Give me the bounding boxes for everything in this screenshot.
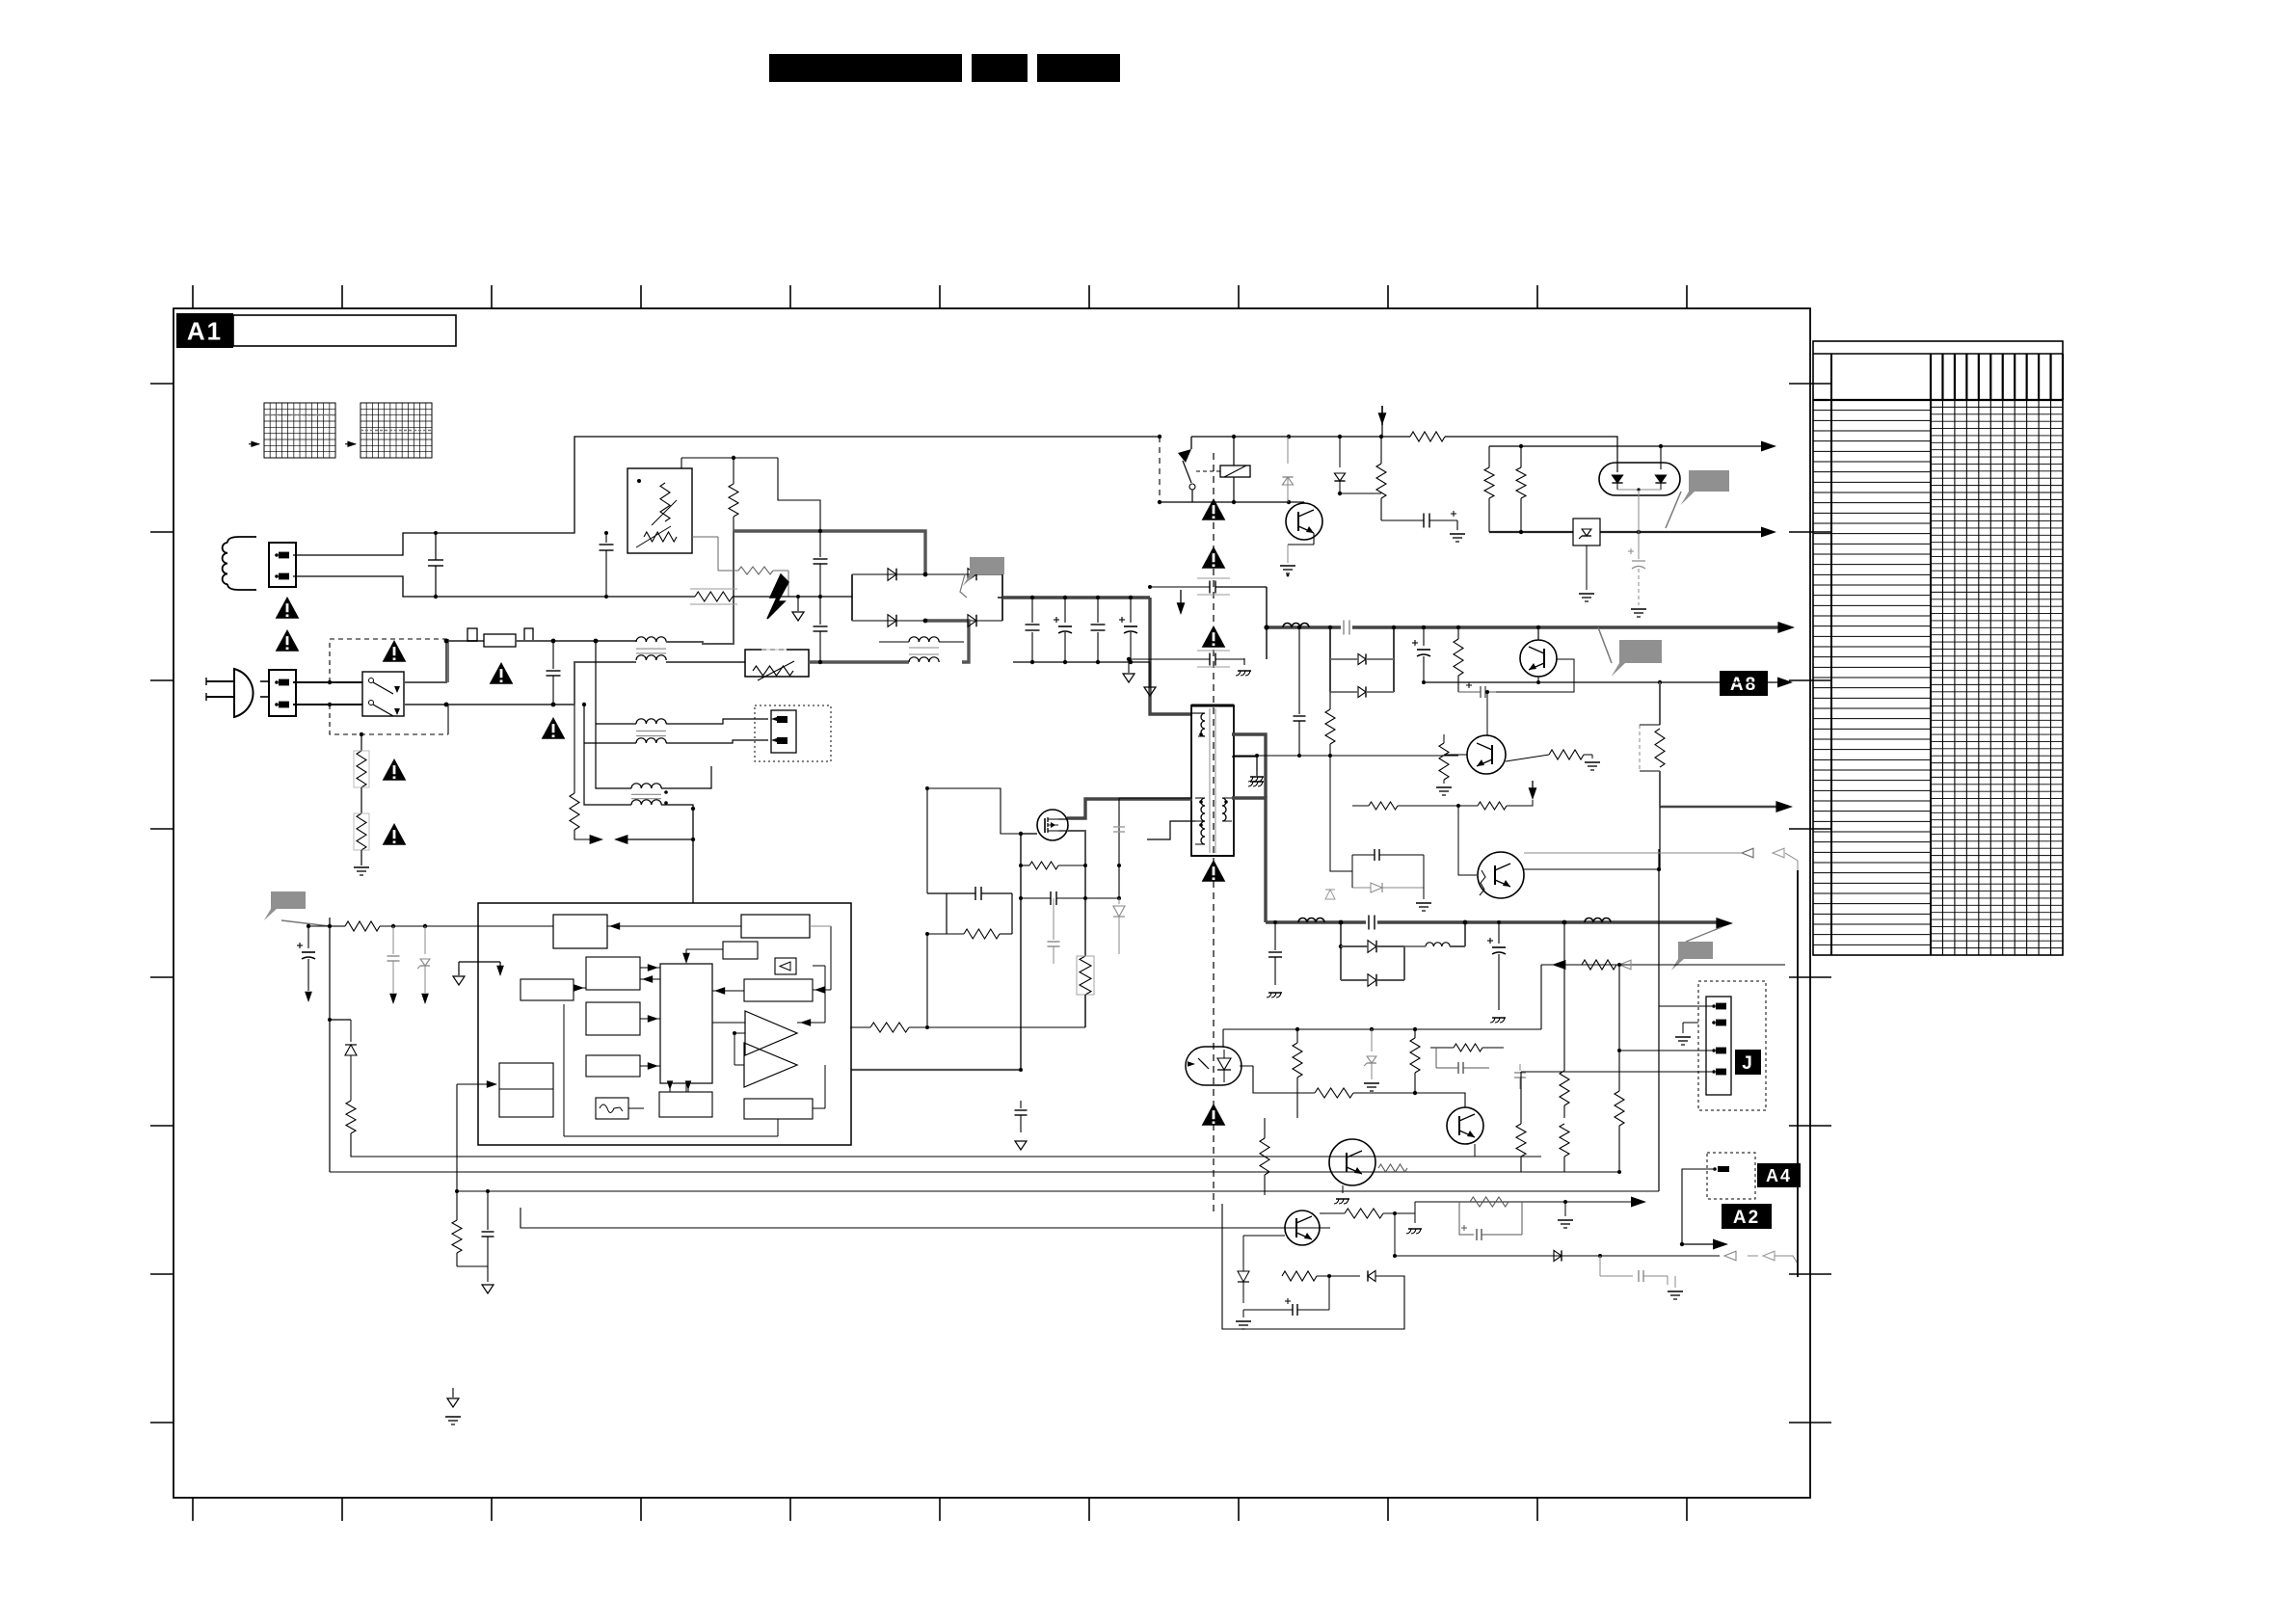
warning triangle [383,758,407,781]
transformer secondary [1222,798,1226,806]
wire top rail [1381,436,1410,438]
wire base loop [1496,659,1574,692]
wire tr base [1292,520,1298,522]
wire opto top [1222,1029,1224,1048]
resistor [1296,1029,1298,1043]
wire [1537,627,1539,640]
svg-text:J: J [1742,1053,1754,1074]
bus primary bottom to mosfet [1067,799,1192,818]
wire [360,787,362,813]
IC block small [723,942,758,959]
bus secondary out [1266,920,1722,923]
page border [174,308,1810,1498]
wire fb lines [561,1156,563,1157]
resistor [1454,1044,1482,1051]
transformer primary [1201,713,1205,721]
dashed relay line [1159,437,1161,502]
wire fb long1 [350,1156,352,1157]
inductor [1585,918,1593,923]
warning triangle [276,597,300,619]
bus secondary [1232,798,1266,922]
wire ptc link [681,457,778,459]
IC internal wiring [607,925,741,927]
diode [1339,437,1341,467]
snubber loop [927,892,947,894]
block feedback outer [521,979,574,1000]
A4 label [1757,1163,1801,1187]
diode relay [1287,437,1289,464]
flag pointer [1681,470,1729,505]
wire aux vert [1118,798,1120,898]
resistor [1560,1124,1569,1157]
resistor [1520,1118,1522,1124]
wire [1488,446,1490,467]
relay coil [1220,466,1250,477]
ground [1591,755,1593,758]
flag pointer [963,557,1004,586]
wire gate snub [927,788,1021,834]
feedback wire D [457,1190,1659,1192]
wire drop [1394,1213,1396,1256]
capacitor el [1423,627,1425,646]
wire neutral [404,704,574,705]
resistor [345,921,380,931]
J connector body [1706,997,1731,1095]
parts list table [1813,341,2063,955]
resistor discharge 1 [357,751,366,787]
wire fuse out [516,640,636,642]
twin diode elements [1612,475,1622,483]
diode [1554,1250,1562,1261]
loop [1459,1202,1474,1235]
node [328,924,332,928]
feedback wire C2 [562,1190,1659,1192]
wire out rail4 [1395,1212,1415,1214]
wire q col [1524,868,1659,870]
wire [1488,498,1490,532]
feedback wire E [521,1208,1330,1228]
ground [1683,1022,1698,1024]
flag pointer [264,891,306,920]
wire sense row [927,1026,1085,1028]
connector pins [771,716,781,723]
bus aux [1147,821,1195,839]
wire into IC [692,809,694,903]
transistor relay driver [1286,503,1322,540]
wire live to fuse [404,641,484,682]
IC block [586,1002,640,1035]
oscillogram grid 1 [264,403,335,458]
wire fb rail [1223,1028,1541,1030]
capacitor [1050,891,1052,905]
wire [1474,1144,1476,1157]
wire out bottom [1682,1243,1717,1245]
feedback wire A [562,1156,1541,1157]
wire 1236 vertical [1658,1190,1660,1192]
wire fb vert [457,1084,562,1191]
resistor [1264,1133,1266,1138]
warning triangle [276,629,300,652]
resistor [1478,802,1507,810]
IC 2stack block [499,1063,553,1117]
wire flag lead [281,920,330,926]
wire [1296,1078,1298,1118]
wire ptc bottom [606,550,665,565]
power switch S1 [362,672,404,716]
wire degauss bottom [293,576,695,597]
resistor [1375,1161,1394,1163]
ground [1564,1202,1566,1216]
capacitor [1328,1276,1330,1310]
wire ptc right top [733,458,734,484]
resistor [1329,692,1331,709]
capacitor bridge lower [819,598,821,625]
wire a4 lead [1682,1169,1715,1244]
resistor [1520,446,1522,467]
zener box [1573,519,1600,545]
A2 label [1722,1204,1772,1229]
wire gate vert [1021,834,1037,1070]
wire bus top [734,531,925,574]
transformer aux2 winding [1201,821,1205,829]
ground [360,850,362,865]
bus vert link [1520,533,1522,627]
wire j4 feed [1672,1051,1674,1072]
wire rail 1247 [1415,1201,1635,1203]
resistor [1410,432,1445,441]
J dashed box [1698,981,1766,1110]
wire choke1 out live [666,531,734,644]
zener diode [1371,1029,1373,1051]
wire aux fb left [329,918,331,926]
IC block [586,1055,640,1077]
inductor [1298,918,1307,923]
wire opto bias [1240,1065,1253,1067]
IC buffer [775,958,796,974]
diode [1368,1270,1375,1281]
IC boundary U1 [478,903,851,1145]
wire mosfet source [1067,831,1085,956]
line filter choke LF2 [636,719,646,724]
wire bus up [1266,587,1268,659]
bus HV vert [1150,598,1192,714]
resistor discharge 2 [357,813,366,850]
degauss coil L1 [239,536,256,538]
loop rect [1222,1204,1404,1329]
IC block bottom [659,1092,712,1117]
vertical right edge bus [1797,870,1799,1277]
capacitor [487,1191,489,1230]
capacitor [1638,532,1640,559]
ground [1668,1275,1675,1277]
wire mains neutral [260,696,269,698]
IC gnd bracket [459,961,500,963]
wire choke2 out [666,719,768,724]
connector degauss [269,543,296,587]
capacitor on bus [1341,621,1352,634]
connector dotted box [755,705,831,761]
IC block bottomright [744,1099,813,1119]
wire 463 rail [1489,445,1765,447]
IC block wide [744,979,813,1001]
wire return drop [1540,965,1542,1029]
wire q3 base [1242,1236,1244,1264]
wire q2 coll [1486,692,1488,735]
IC tall block [660,964,712,1083]
module label A1 [176,313,233,348]
wire relay junction [1233,437,1235,466]
wire [497,1083,499,1085]
wire [329,918,331,926]
ground [1456,520,1458,530]
warning triangle [1202,546,1226,569]
wire loop [1351,855,1353,888]
resistor [346,1101,356,1133]
capacitor Y2 [1274,922,1276,950]
warning triangle [383,640,407,662]
ground arrow [1149,662,1151,686]
wire [1264,1118,1266,1133]
resistor [1563,922,1565,1071]
wire flag [960,574,967,598]
wire rc join [457,1265,488,1267]
wire switch to resistors [360,734,362,751]
ground chassis [1243,658,1245,665]
bridge rectifier D1 [851,574,853,621]
ground chassis [1408,1228,1422,1230]
ground arrow [1128,658,1130,673]
wire base link [1380,492,1382,494]
capacitor across degauss [435,533,437,560]
diode [350,1020,352,1042]
warning triangle [1202,498,1226,520]
wire fb2 [330,1020,562,1172]
IC comparator 1 [745,1011,797,1055]
wire choke1 out neutral [666,661,745,663]
wire j3b [1619,1050,1712,1051]
resistor [1369,802,1398,810]
wire fbC segment [457,1190,562,1192]
ground chassis [1342,1185,1344,1193]
wire [1445,437,1617,472]
flag pointer [1612,640,1662,677]
capacitor out [1498,922,1500,944]
warning triangle [490,662,514,684]
wire base q [1265,1194,1282,1196]
capacitor bridge upper [819,531,821,557]
wire aux rail [626,838,693,840]
warning triangle [383,823,407,845]
wire ptc top [681,458,682,468]
resistor aux [574,705,575,793]
ground [1287,545,1289,563]
ground arrow [1015,1141,1027,1150]
IC comparator 2 [744,1043,797,1087]
wire cs from sense [947,1026,948,1028]
IC block osc [586,957,640,990]
wire mains live [260,680,269,682]
wire comp input [850,1026,870,1028]
transistor pass [1520,640,1557,677]
resistor [1470,1197,1508,1207]
wire relay bottom rail [1160,501,1289,503]
warning triangle [1202,625,1226,648]
wire rail 1303 [1395,1255,1720,1257]
wire a4 [1682,1168,1715,1170]
capacitor aux [1113,826,1125,828]
wire j4b [1521,1071,1712,1073]
resistor [1484,467,1494,498]
transistor [1285,1211,1320,1245]
transistor reg2 [1478,852,1524,898]
module title box [233,315,456,346]
resistor [1315,1088,1353,1098]
capacitor [1298,627,1300,714]
title bar redacted 2 [972,54,1028,82]
capacitor [1519,1064,1521,1071]
bus secondary tap [1232,734,1266,798]
wire sense out [1084,995,1086,1027]
bus HV [1002,596,1150,599]
ground arrow hot [797,598,799,611]
wire tr collector [1303,502,1305,503]
wire q1 emit [1537,677,1539,682]
capacitor [1599,1256,1601,1276]
transformer T1 frame [1191,705,1234,856]
wire 1236 end [1658,1190,1660,1192]
power arrow down2 [1180,590,1182,605]
varistor box [745,650,809,677]
transformer aux winding [1201,798,1205,806]
arrowheads meet [590,835,603,844]
ground earth [445,1416,461,1418]
transistor lower [1467,735,1506,774]
wire zbox gnd [1586,545,1588,590]
resistor [729,484,738,517]
resistor [456,1191,458,1220]
J connector pins [1712,1004,1716,1008]
resistor [1380,437,1382,464]
line filter choke LF4 [909,637,919,642]
title bar redacted 1 [769,54,962,82]
title bar redacted 3 [1037,54,1120,82]
Y-capacitor [1184,586,1210,588]
line filter choke LF1 [636,637,646,642]
ground [1242,1310,1244,1317]
wire branch [1659,807,1661,870]
wire varistor to bridge [809,660,909,663]
wire [1395,1202,1415,1213]
feedback wire B [330,1171,1619,1173]
wire return [1541,964,1785,966]
optocoupler U2 [1186,1047,1241,1085]
wire [351,1133,562,1157]
svg-text:A2: A2 [1733,1208,1760,1228]
AC mains plug [234,669,254,717]
resistor [1549,750,1584,759]
wire tr [1482,1125,1521,1127]
wire [1638,569,1640,605]
A4 dashed box [1707,1153,1755,1199]
wire choke3 in [596,724,631,788]
wire out4 [1394,1202,1396,1213]
wire j lines [1540,1028,1542,1030]
wire 552 rail [1489,531,1765,533]
capacitor [392,926,394,954]
HV filter capacitors [1031,598,1033,623]
capacitor electrolytic [307,926,309,948]
A8 label [1720,671,1768,696]
diode [1242,1264,1244,1271]
wire cs input [909,1026,948,1028]
wire choke3 out [661,766,711,788]
A4 pin [1713,1167,1717,1171]
flash symbol [767,574,788,619]
IC sine box [596,1098,628,1119]
wire J1 [1659,1005,1712,1007]
wire ycap left [1129,658,1184,660]
wire oval to rail [1638,490,1640,532]
wire long bottom1 [851,1156,1296,1157]
J label [1735,1050,1761,1075]
rectifier diode pair [1340,922,1342,980]
wire oval tap2 [1660,446,1662,469]
wire J3 [1541,1050,1712,1051]
transistor [1329,1139,1375,1185]
wire tr emitter [1313,533,1315,545]
wire sec gnd [1232,757,1257,776]
MOSFET Q1 [1037,810,1068,840]
bus gate drive [851,1069,1021,1071]
resistor [1029,862,1058,869]
resistor [870,1023,909,1032]
sense resistor [1078,956,1093,995]
connector mains [269,670,296,716]
capacitor X2 [605,533,607,543]
diode pair [1329,627,1331,692]
wire left link [1330,756,1352,871]
warning triangle [1202,860,1226,882]
flag pointer [1671,942,1713,971]
wire j feed vert [1618,965,1620,1085]
resistor [1282,1271,1317,1281]
warning triangle [1202,1104,1226,1126]
capacitor series [1366,916,1377,929]
wire J4 [1659,1071,1712,1073]
wire tl431 area [1415,1093,1465,1107]
wire q3 emitter [1301,1245,1303,1276]
wire out mid [1424,681,1781,683]
svg-text:A1: A1 [187,316,223,345]
IC block ref [553,915,607,948]
wire [1191,436,1381,438]
mains switch dashed frame [330,639,448,682]
capacitor [1381,519,1424,521]
wire top out [1524,852,1639,854]
feedback wire B3 [1633,1171,1635,1173]
wire neutral to choke2 [584,705,636,743]
ground arrow [452,1388,454,1397]
Y-capacitor [1184,658,1210,660]
wire [1320,1212,1345,1214]
power arrow down [1381,406,1383,425]
wire bottom feed [1638,589,1640,591]
oscillogram grid 2 [360,403,432,458]
border ruler ticks [192,285,194,308]
wire fb long2 [561,1152,563,1157]
bus B+ out [1265,625,1781,628]
relay switch contact [1190,437,1192,449]
